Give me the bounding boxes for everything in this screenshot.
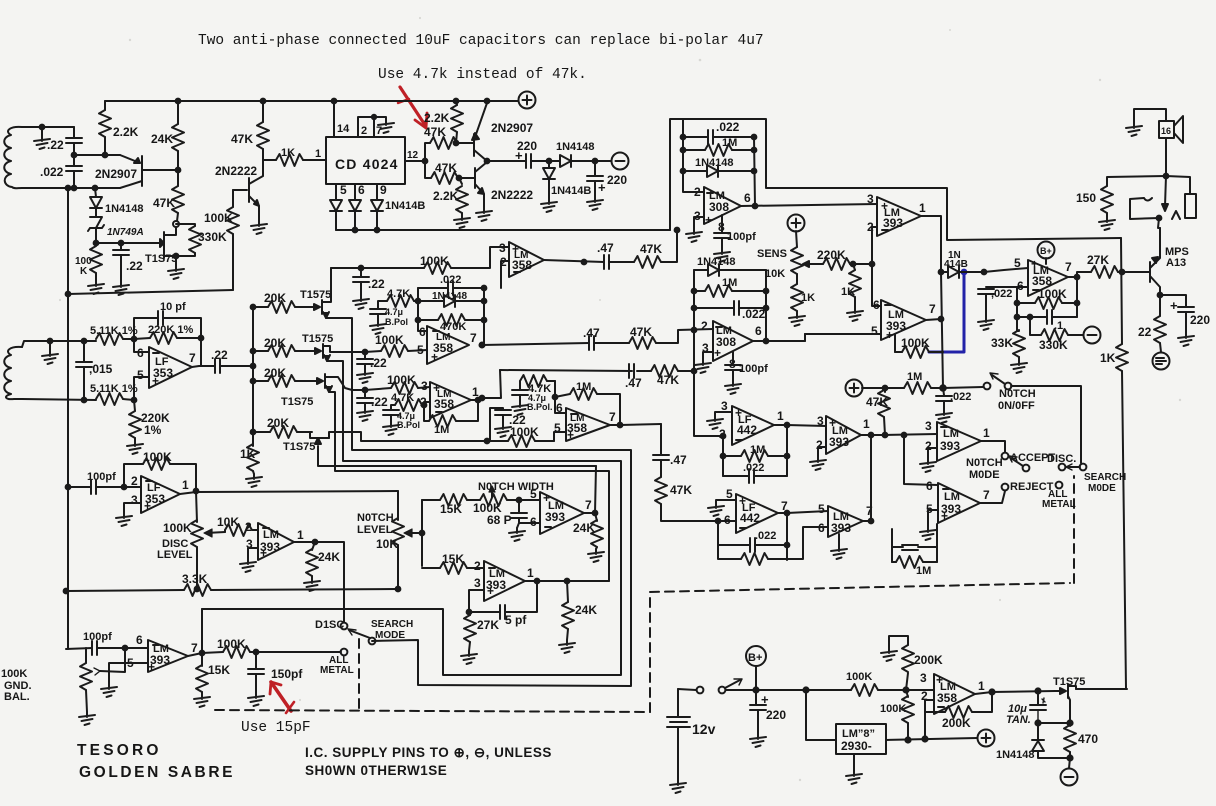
pin6 wire (125, 647, 148, 649)
svg-text:27K: 27K (477, 618, 499, 632)
red arrow Use 15pF (270, 682, 294, 713)
svg-text:5 pf: 5 pf (505, 613, 527, 627)
op-amp LM308 second (713, 321, 753, 361)
V+ circle pull (846, 380, 863, 397)
svg-text:1M: 1M (576, 381, 591, 393)
pin2 wire (925, 700, 934, 739)
left bus vertical (67, 188, 69, 649)
svg-text:METAL: METAL (320, 665, 354, 676)
svg-text:1N4148: 1N4148 (556, 141, 595, 153)
row1 wire to 100K (331, 267, 361, 269)
wire coil bottom (22, 187, 120, 189)
stageA feedback rails (418, 288, 484, 345)
svg-text:+: + (598, 180, 606, 195)
op-amp LM393 allmetal (148, 640, 188, 672)
svg-text:1N4148: 1N4148 (697, 256, 736, 268)
svg-text:3: 3 (474, 576, 481, 590)
svg-text:+: + (487, 584, 494, 598)
speaker (1159, 121, 1174, 138)
svg-text:T1S75: T1S75 (283, 441, 315, 453)
output osc2 (535, 579, 540, 584)
output wire B (785, 511, 790, 516)
svg-text:1N414B: 1N414B (385, 200, 425, 212)
pin5 ground (109, 663, 148, 684)
svg-text:442: 442 (737, 423, 757, 437)
svg-text:+: + (431, 350, 438, 364)
svg-text:6: 6 (744, 191, 751, 205)
wire coil top (22, 126, 74, 128)
svg-text:+: + (144, 499, 151, 513)
svg-text:358: 358 (937, 691, 957, 705)
feedback rails A (723, 425, 787, 476)
svg-text:+: + (260, 546, 267, 560)
pin3 ground (248, 548, 258, 559)
svg-text:1M: 1M (916, 565, 931, 577)
op-amp LM393 sum1 (826, 416, 861, 454)
svg-text:4.7μ: 4.7μ (385, 307, 403, 317)
svg-text:5: 5 (871, 324, 878, 338)
svg-text:+: + (941, 509, 948, 523)
svg-text:3: 3 (925, 419, 932, 433)
pin2 rail (683, 119, 704, 192)
dashed boundary box (650, 476, 1074, 712)
headphone jack (1166, 176, 1190, 194)
svg-text:100pf: 100pf (739, 363, 768, 375)
ground bus bottom (336, 229, 670, 231)
pin6 wire (134, 339, 149, 352)
stageB1 output (476, 398, 481, 403)
svg-text:2: 2 (701, 319, 708, 333)
svg-text:2: 2 (245, 520, 252, 534)
svg-text:N0TCH: N0TCH (966, 457, 1003, 469)
ALL METAL contact right (1056, 482, 1063, 489)
op-amp LM358 stageB2 (566, 408, 610, 441)
pin2 wire (721, 434, 726, 439)
svg-text:47K: 47K (670, 483, 692, 497)
svg-text:+: + (152, 374, 159, 388)
op-amp LM358 out (1028, 260, 1068, 296)
svg-text:2N2222: 2N2222 (215, 164, 257, 178)
op-amp LM393 notch4 (938, 483, 980, 523)
resistor 1M fbB (718, 545, 741, 559)
svg-text:220: 220 (766, 708, 786, 722)
svg-text:3: 3 (920, 671, 927, 685)
V- circle (1084, 327, 1101, 344)
svg-text:10K: 10K (765, 268, 785, 280)
capacitor .22 (73, 127, 75, 137)
svg-text:33K: 33K (991, 336, 1013, 350)
output to REJECT (980, 491, 1005, 503)
svg-text:.022: .022 (440, 274, 461, 286)
svg-text:12v: 12v (692, 721, 716, 737)
svg-text:.22: .22 (368, 277, 385, 291)
B+ circle main (746, 646, 766, 666)
svg-text:5.11K 1%: 5.11K 1% (90, 383, 138, 395)
svg-text:Use 15pF: Use 15pF (241, 720, 311, 736)
pin5 wire (804, 334, 806, 341)
svg-text:.022: .022 (755, 530, 776, 542)
vertical to 1M node (941, 272, 943, 388)
svg-text:2.2K: 2.2K (113, 125, 139, 139)
output A down (921, 216, 941, 272)
regulator output rail (886, 738, 977, 740)
svg-text:68 P: 68 P (487, 513, 512, 527)
pin5 ground (928, 510, 938, 527)
svg-text:.22: .22 (126, 259, 143, 273)
svg-text:220: 220 (607, 173, 627, 187)
svg-text:+: + (705, 213, 712, 227)
svg-text:.022: .022 (40, 165, 64, 179)
svg-text:LEVEL: LEVEL (357, 524, 393, 536)
svg-text:1: 1 (182, 478, 189, 492)
svg-text:6: 6 (724, 513, 731, 527)
feedback 1M block (892, 524, 937, 562)
svg-text:2930-: 2930- (841, 739, 872, 753)
dashed boundary left (215, 639, 650, 712)
svg-text:N0TCH: N0TCH (999, 388, 1036, 400)
svg-text:3: 3 (817, 414, 824, 428)
svg-text:393: 393 (831, 521, 851, 535)
pin5 ground (716, 500, 736, 503)
svg-text:.47: .47 (670, 453, 687, 467)
output stageB2 (618, 423, 623, 428)
svg-text:470K: 470K (440, 321, 466, 333)
svg-text:1N414B: 1N414B (551, 185, 591, 197)
svg-text:1: 1 (527, 566, 534, 580)
V- circle reg (1069, 758, 1070, 768)
svg-text:,022: ,022 (950, 391, 971, 403)
svg-text:12: 12 (407, 150, 419, 161)
op-amp LM393 notch3 (937, 422, 981, 461)
pin2 wire (124, 486, 141, 488)
ground coil top (41, 127, 43, 136)
svg-text:SEARCH: SEARCH (1084, 472, 1126, 483)
svg-text:1M: 1M (907, 371, 922, 383)
svg-text:2.2K: 2.2K (433, 189, 459, 203)
svg-text:24K: 24K (318, 550, 340, 564)
svg-text:5: 5 (818, 502, 825, 516)
V+ circle (519, 92, 536, 109)
svg-text:Two anti-phase connected 10uF: Two anti-phase connected 10uF capacitors… (198, 33, 764, 49)
svg-text:7: 7 (189, 351, 196, 365)
svg-text:220K: 220K (817, 248, 846, 262)
output wire to LM393 (741, 204, 877, 206)
svg-text:7: 7 (470, 331, 477, 345)
svg-text:K: K (80, 266, 88, 277)
V+ circle reg (978, 730, 995, 747)
svg-text:9: 9 (380, 183, 387, 197)
output up (863, 435, 871, 521)
wire base 2N2907 (74, 154, 120, 156)
op-amp LF353 B (141, 476, 180, 513)
svg-text:3: 3 (867, 192, 874, 206)
op-amp LM358 ref (934, 674, 975, 714)
svg-text:3: 3 (721, 399, 728, 413)
svg-text:5: 5 (1014, 256, 1021, 270)
output wire (200, 651, 205, 656)
svg-text:B+: B+ (1040, 246, 1052, 256)
pin3 ground (124, 503, 141, 513)
svg-text:.022: .022 (716, 120, 740, 134)
svg-text:100pf: 100pf (727, 231, 756, 243)
svg-text:1: 1 (919, 201, 926, 215)
svg-text:1: 1 (315, 148, 321, 160)
capacitor .022 (72, 153, 77, 158)
svg-text:393: 393 (829, 435, 849, 449)
svg-text:470: 470 (1078, 732, 1098, 746)
svg-text:+: + (886, 328, 893, 342)
svg-text:.47: .47 (597, 241, 614, 255)
svg-text:T1575: T1575 (300, 289, 331, 301)
svg-text:24K: 24K (575, 603, 597, 617)
op-amp LM393 B (881, 300, 926, 340)
coil L2 (4, 347, 22, 399)
svg-text:442: 442 (740, 511, 760, 525)
wire to switch net (201, 609, 203, 653)
svg-text:24K: 24K (151, 132, 173, 146)
svg-text:2.2K: 2.2K (424, 111, 450, 125)
svg-text:,015: ,015 (89, 362, 113, 376)
svg-text:308: 308 (709, 200, 729, 214)
svg-text:6: 6 (136, 633, 143, 647)
svg-text:1N4148: 1N4148 (105, 203, 144, 215)
routing wire second (202, 361, 621, 675)
pin3 wire (469, 590, 484, 612)
output B (926, 319, 941, 320)
bus corner wires (670, 119, 1121, 240)
svg-text:.022: .022 (742, 307, 766, 321)
op-amp LM393 osc2 (484, 561, 525, 601)
op-amp LM393 osc1 (540, 492, 584, 534)
svg-text:200K: 200K (914, 653, 943, 667)
svg-text:2N2907: 2N2907 (491, 121, 533, 135)
output node (785, 423, 790, 428)
feedback rails B (718, 513, 787, 560)
pin3 ground (703, 352, 713, 360)
svg-text:TESORO: TESORO (77, 742, 162, 759)
svg-text:B.Pol: B.Pol (397, 420, 420, 430)
power switch (678, 689, 696, 690)
NOTCH MODE lever (1011, 458, 1023, 466)
svg-text:.22: .22 (47, 138, 64, 152)
bias wire (68, 290, 233, 294)
svg-text:100K: 100K (510, 425, 539, 439)
feedback rails (1017, 277, 1077, 331)
svg-text:27K: 27K (1087, 253, 1109, 267)
svg-text:1: 1 (863, 417, 870, 431)
output wire long (180, 491, 398, 494)
svg-text:100K: 100K (204, 211, 233, 225)
ground stub (48, 339, 53, 344)
red arrow to 47K (398, 87, 427, 128)
svg-text:+: + (1170, 298, 1178, 313)
svg-text:47K: 47K (640, 242, 662, 256)
svg-text:+: + (567, 428, 574, 442)
svg-text:3: 3 (499, 241, 506, 255)
main supply wire (756, 689, 851, 691)
svg-text:+: + (714, 346, 721, 360)
drain wire to long vertical (1076, 688, 1127, 690)
IC CD4024 (326, 137, 405, 184)
long right vertical wire (1121, 238, 1122, 344)
svg-text:358: 358 (434, 397, 454, 411)
svg-text:B.Pol.: B.Pol. (527, 402, 553, 412)
op-amp LF353 A (149, 347, 192, 388)
svg-text:5: 5 (417, 343, 424, 357)
svg-text:6: 6 (1017, 279, 1024, 293)
svg-text:100K: 100K (1038, 287, 1067, 301)
svg-text:15K: 15K (208, 663, 230, 677)
op-amp LM358 stageB1 (430, 382, 471, 418)
output node (313, 540, 318, 545)
svg-text:SH0WN 0THERW1SE: SH0WN 0THERW1SE (305, 763, 447, 778)
svg-text:I.C. SUPPLY PINS TO ⊕, ⊖, UNLE: I.C. SUPPLY PINS TO ⊕, ⊖, UNLESS (305, 745, 552, 760)
svg-text:.47: .47 (583, 326, 600, 340)
svg-text:1: 1 (297, 528, 304, 542)
svg-text:5: 5 (726, 487, 733, 501)
svg-text:MODE: MODE (375, 630, 405, 641)
svg-text:5: 5 (137, 368, 144, 382)
svg-text:6: 6 (873, 298, 880, 312)
diode 1N4148 pin5 (330, 200, 342, 211)
svg-text:100K: 100K (846, 671, 872, 683)
pin2 ground (818, 447, 826, 457)
svg-text:BAL.: BAL. (4, 691, 30, 703)
op-amp LM358 hp (509, 242, 544, 277)
pin2 link (872, 227, 881, 306)
pin2 ground (928, 448, 937, 459)
svg-text:6: 6 (926, 479, 933, 493)
op-amp LF442 A (732, 406, 774, 445)
svg-text:5: 5 (340, 183, 347, 197)
pin5 wire (134, 377, 149, 400)
svg-text:N0TCH: N0TCH (357, 512, 394, 524)
svg-text:1%: 1% (144, 423, 162, 437)
svg-text:330K: 330K (1039, 338, 1068, 352)
pin3 wire (908, 689, 934, 691)
stageA output (480, 343, 485, 348)
svg-text:393: 393 (940, 439, 960, 453)
op-amp LM393 disc (258, 523, 294, 560)
svg-text:2: 2 (361, 125, 367, 137)
coil L1 (4, 127, 22, 188)
pin3/pin6 link (885, 434, 937, 435)
V+ circle sens (788, 215, 805, 232)
svg-text:330K: 330K (198, 230, 227, 244)
svg-text:2N2907: 2N2907 (95, 167, 137, 181)
svg-text:393: 393 (883, 216, 903, 230)
pin2 stub (501, 261, 509, 288)
V- circle (612, 153, 629, 170)
svg-text:1N4148: 1N4148 (695, 157, 734, 169)
svg-text:B+: B+ (748, 652, 762, 664)
svg-text:METAL: METAL (1042, 499, 1076, 510)
svg-text:100K: 100K (217, 637, 246, 651)
pin2 node vertical to LF442 (694, 330, 723, 436)
svg-text:Use 4.7k instead of 47k.: Use 4.7k instead of 47k. (378, 67, 587, 83)
svg-text:100K: 100K (1, 668, 27, 680)
output wire (753, 334, 881, 341)
svg-text:.22: .22 (371, 395, 388, 409)
svg-text:393: 393 (545, 510, 565, 524)
svg-text:47K: 47K (231, 132, 253, 146)
V+ bus top (105, 100, 518, 102)
svg-text:220: 220 (1190, 313, 1210, 327)
op-amp LM308 first (704, 187, 741, 224)
svg-text:2N2222: 2N2222 (491, 188, 533, 202)
output node (1075, 275, 1080, 280)
svg-text:1N4148: 1N4148 (996, 749, 1035, 761)
svg-text:150: 150 (1076, 191, 1096, 205)
svg-text:1N749A: 1N749A (107, 227, 144, 238)
wire pin5 (532, 499, 540, 501)
switch lever (349, 630, 370, 638)
battery circle 3 (1153, 353, 1170, 370)
svg-text:22: 22 (1138, 325, 1152, 339)
B+ circle (1038, 242, 1055, 259)
svg-text:1K: 1K (1100, 351, 1116, 365)
svg-text:1: 1 (983, 426, 990, 440)
svg-text:LEVEL: LEVEL (157, 549, 193, 561)
output osc1 (593, 511, 598, 516)
filter bus vertical (252, 305, 254, 446)
svg-text:2: 2 (131, 474, 138, 488)
wire coil2 top (22, 341, 96, 347)
svg-text:1: 1 (777, 409, 784, 423)
svg-text:7: 7 (983, 488, 990, 502)
wire coil2 bottom (22, 399, 96, 400)
op-amp LM393 sum2 (828, 506, 863, 537)
node open circle (173, 221, 179, 227)
svg-text:0N/0FF: 0N/0FF (998, 400, 1035, 412)
svg-text:M0DE: M0DE (969, 469, 1000, 481)
svg-text:150pf: 150pf (271, 667, 303, 681)
svg-text:5: 5 (530, 487, 537, 501)
svg-text:16: 16 (1161, 126, 1171, 136)
svg-text:6: 6 (530, 515, 537, 529)
svg-text:3.3K: 3.3K (182, 572, 208, 586)
svg-text:SEARCH: SEARCH (371, 619, 413, 630)
svg-text:6: 6 (755, 324, 762, 338)
pin6 rail (555, 381, 566, 413)
diode 1N4148 pin6 (349, 200, 361, 211)
svg-text:3: 3 (421, 379, 428, 393)
blue mod wire (929, 272, 964, 352)
routing wire fourth (318, 446, 596, 466)
svg-text:TAN.: TAN. (1006, 714, 1031, 726)
svg-text:GOLDEN SABRE: GOLDEN SABRE (79, 764, 235, 781)
svg-text:6: 6 (358, 183, 365, 197)
ground pin+ (838, 534, 840, 546)
op-amp LM358 stageA (427, 326, 469, 364)
svg-text:2: 2 (474, 559, 481, 573)
IC LM2930 (836, 724, 886, 754)
svg-text:358: 358 (512, 258, 532, 272)
svg-text:200K: 200K (942, 716, 971, 730)
feedback rails (694, 270, 766, 341)
svg-text:1: 1 (978, 679, 985, 693)
routing wire outer (326, 318, 631, 686)
pin3 ground (715, 412, 732, 416)
svg-text:7: 7 (929, 302, 936, 316)
op-amp LM393 A (877, 197, 921, 236)
svg-text:+: + (148, 660, 155, 674)
wire to regulator (806, 690, 836, 740)
svg-text:7: 7 (585, 498, 592, 512)
svg-text:T1575: T1575 (302, 333, 333, 345)
routing wire third (329, 392, 609, 581)
diode 1N4148 pin9 (371, 200, 383, 211)
